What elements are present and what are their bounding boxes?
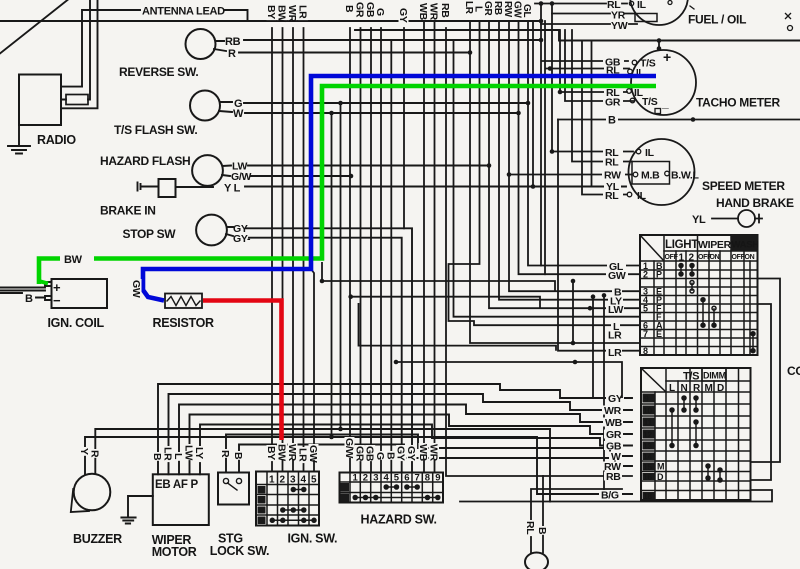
svg-text:LOCK SW.: LOCK SW. (210, 544, 269, 558)
bus vertical GR hazard col2 (360, 28, 362, 473)
svg-text:RB: RB (606, 471, 621, 483)
wire R buzzer (95, 429, 550, 502)
svg-text:W: W (233, 108, 244, 120)
svg-text:B: B (232, 452, 244, 460)
bus vertical F row feed (454, 41, 641, 317)
svg-text:RL: RL (605, 190, 619, 202)
label LW wiper (183, 444, 195, 461)
label GB hazard (364, 445, 376, 462)
label backgrounds (599, 57, 707, 500)
svg-text:GY-: GY- (233, 233, 251, 245)
label WR top2 (428, 2, 440, 21)
bus vertical WB hazard col8 (423, 21, 425, 473)
fuel gauge inner box (635, 14, 657, 22)
t/s table horizontals (641, 381, 751, 491)
bus vertical GR cluster (489, 21, 640, 308)
label WB hazard (417, 443, 429, 462)
label BW ign (276, 443, 288, 461)
svg-text:+: + (663, 49, 671, 65)
label WR hazard (428, 443, 440, 462)
svg-text:3: 3 (373, 473, 378, 484)
speed terminal il bottom (627, 192, 632, 197)
svg-text:GR: GR (354, 2, 366, 18)
radio U1 (19, 75, 61, 126)
svg-text:ON: ON (710, 254, 720, 261)
svg-text:G: G (374, 8, 386, 16)
svg-text:GY: GY (405, 446, 417, 461)
tacho bottom square (655, 109, 661, 114)
label GR cluster (482, 1, 493, 16)
ign sw contacts (270, 488, 316, 523)
wire YL brake to speed meter (245, 186, 626, 188)
svg-text:WB: WB (417, 3, 429, 21)
label BW top (276, 4, 288, 22)
resistor R1 (165, 294, 202, 309)
t/s table verticals (655, 368, 739, 500)
svg-text:HAZARD SW.: HAZARD SW. (361, 513, 437, 527)
label GW ign (307, 444, 319, 463)
svg-text:LR: LR (297, 448, 309, 462)
ign sw row labels rotated (258, 486, 266, 524)
svg-text:ON: ON (745, 254, 755, 261)
svg-text:MOTOR: MOTOR (152, 545, 197, 559)
wire B tacho (558, 119, 800, 121)
svg-text:T/S FLASH SW.: T/S FLASH SW. (114, 123, 197, 137)
svg-text:STOP SW: STOP SW (123, 227, 177, 241)
junction mid a2 (329, 435, 334, 440)
label RB top (439, 2, 451, 18)
wire GW blue highlight (143, 76, 656, 301)
wire W t/s flash (219, 111, 519, 113)
svg-text:RB: RB (439, 3, 451, 18)
bus vertical GY top (403, 28, 405, 228)
svg-text:4: 4 (301, 475, 307, 486)
svg-text:SPEED METER: SPEED METER (702, 179, 785, 193)
wire mid vertical a (331, 113, 333, 437)
ground wiper motor (121, 496, 152, 524)
bus vertical RL speed row5 (582, 41, 627, 195)
svg-text:GW: GW (512, 1, 523, 18)
svg-text:HAND BRAKE: HAND BRAKE (716, 196, 794, 210)
junction top4 (550, 1, 555, 6)
tacho terminal il1 (628, 69, 633, 74)
svg-text:B: B (25, 293, 33, 305)
bus vertical B/G mid feed (604, 295, 632, 494)
svg-text:L: L (473, 6, 484, 12)
speed terminal bwl (665, 171, 670, 176)
bus vertical RL speed (552, 4, 633, 152)
svg-text:8: 8 (643, 346, 648, 356)
svg-text:BW: BW (276, 5, 288, 22)
antenna plug P1 (66, 95, 88, 105)
svg-text:GR: GR (353, 446, 365, 462)
svg-text:10: 10 (643, 406, 652, 416)
ground radio (8, 125, 30, 154)
tacho terminal il2 (627, 89, 632, 94)
svg-text:G/W: G/W (343, 438, 355, 458)
svg-text:5: 5 (643, 304, 648, 314)
junction B row (602, 293, 607, 298)
bus vertical GW ign (311, 76, 314, 472)
hazard off/on cells (341, 483, 350, 492)
label LR ign (297, 447, 309, 463)
svg-text:Y: Y (78, 448, 90, 455)
svg-text:8: 8 (425, 473, 430, 484)
svg-text:14: 14 (643, 452, 652, 462)
wire long bus top y21 (0, 20, 541, 22)
table horizontals (640, 251, 758, 347)
label GW resistor blue (130, 279, 142, 298)
label BY top (265, 4, 277, 20)
svg-text:YL: YL (692, 214, 706, 226)
svg-text:GW: GW (608, 270, 626, 282)
wire radio feed 2 (61, 0, 98, 108)
speed meter M3 (629, 139, 695, 205)
svg-text:LR: LR (608, 330, 622, 342)
fuse brake in F1 (159, 179, 176, 197)
label GY hazard2 (405, 445, 417, 461)
svg-text:LIGHT: LIGHT (665, 239, 698, 251)
svg-text:WR: WR (428, 3, 440, 21)
steering lock switch SW8 (218, 473, 249, 505)
junction mid a (329, 111, 334, 116)
bus vertical G hazard col4 (380, 28, 382, 473)
junction R/LR (468, 50, 473, 55)
svg-text:BW: BW (64, 254, 83, 266)
top edge connector marks (785, 13, 793, 31)
svg-text:11: 11 (644, 418, 653, 428)
junction RL tacho (548, 66, 553, 71)
svg-text:M: M (705, 383, 713, 394)
label RW cluster (502, 1, 513, 18)
svg-text:B.W.L: B.W.L (671, 170, 700, 182)
bus vertical B hazard col5 (390, 41, 392, 473)
svg-text:G: G (374, 452, 386, 460)
svg-text:LW: LW (183, 445, 195, 461)
svg-text:BUZZER: BUZZER (73, 532, 122, 546)
svg-text:OFF: OFF (665, 254, 679, 261)
svg-text:GB: GB (364, 446, 376, 462)
svg-text:1: 1 (269, 475, 275, 486)
wire R reverse (214, 49, 470, 53)
svg-text:WR: WR (286, 5, 298, 23)
svg-text:B: B (536, 527, 548, 535)
label GY top (397, 7, 409, 23)
svg-text:RB: RB (225, 36, 241, 48)
svg-text:RW: RW (502, 1, 513, 18)
svg-text:N: N (681, 383, 688, 394)
bus vertical GW cluster (519, 21, 641, 274)
junction W/GW (516, 111, 521, 116)
bus vertical RW cluster (509, 21, 640, 291)
svg-text:2: 2 (689, 253, 695, 264)
junction RW/509 (507, 172, 512, 177)
svg-text:RB: RB (492, 1, 503, 15)
svg-text:R: R (693, 383, 701, 394)
wire Y buzzer (85, 437, 632, 494)
junction LW row (588, 306, 593, 311)
label GR hazard (353, 445, 365, 462)
table WASH header fill (731, 235, 758, 251)
bus vertical RL tacho (545, 21, 629, 274)
svg-text:LR: LR (162, 447, 174, 461)
svg-text:RADIO: RADIO (37, 133, 76, 147)
wire loop light table to t/s table outer (460, 279, 780, 502)
label L cluster (473, 6, 484, 12)
svg-text:16: 16 (643, 472, 652, 482)
bus vertical BY (271, 28, 273, 472)
svg-text:R: R (219, 450, 231, 458)
junction step gy (573, 360, 578, 365)
t/s header diagonal (641, 368, 666, 392)
hand brake switch SW5 (712, 218, 738, 220)
svg-text:B: B (343, 5, 355, 13)
svg-text:BW: BW (276, 444, 288, 461)
stop switch SW4 (196, 215, 227, 246)
svg-text:REVERSE SW.: REVERSE SW. (119, 65, 198, 79)
svg-text:1: 1 (679, 253, 685, 264)
svg-text:WR: WR (286, 444, 298, 462)
label WB top (417, 2, 429, 21)
wire loop light table to t/s table inner (751, 304, 772, 480)
label B bottom (536, 526, 548, 535)
label B top (343, 4, 355, 13)
svg-text:GR: GR (606, 429, 622, 441)
wire GY stop (227, 227, 412, 473)
svg-text:WB: WB (417, 444, 429, 462)
svg-text:IL: IL (645, 147, 655, 159)
junction mid b2 (338, 427, 343, 432)
fuel/oil gauge M1 (630, 0, 688, 25)
label RL bottom (524, 520, 536, 536)
label WR top (286, 4, 298, 23)
bus vertical GR tacho (565, 30, 634, 101)
svg-text:IL: IL (637, 190, 647, 202)
junction y21 (539, 19, 544, 24)
DIMM header box (702, 368, 726, 381)
svg-text:OFF: OFF (732, 254, 746, 261)
t/s table row labels redrawn on top (599, 393, 624, 502)
t/s table pin number cells (643, 394, 665, 502)
label L wiper (172, 452, 184, 461)
wire link LR-B (572, 281, 574, 343)
speed terminal il top (636, 149, 641, 154)
svg-text:RW: RW (604, 170, 621, 182)
wire RB reverse (216, 40, 542, 41)
svg-text:2: 2 (280, 475, 286, 486)
wire t/s to bottom right (460, 490, 772, 502)
wire wiper LW (190, 415, 633, 475)
label GR top (354, 1, 366, 18)
bus vertical LR light row2 feed (558, 120, 640, 351)
label GW cluster (512, 1, 523, 18)
svg-text:M: M (657, 462, 664, 472)
label G/W hazard (343, 437, 355, 458)
hazard flasher SW3 (192, 155, 223, 186)
svg-text:WIPER: WIPER (698, 239, 732, 251)
light table contacts (679, 264, 755, 353)
label LR wiper (162, 446, 174, 462)
svg-text:GR: GR (605, 97, 621, 109)
svg-text:IL: IL (637, 0, 647, 11)
label BY ign (265, 445, 277, 461)
wire long bus top y30 to y40 step (355, 30, 800, 41)
buzzer BZ1 (74, 474, 111, 511)
svg-text:2: 2 (363, 473, 368, 484)
extra mid verticals (322, 103, 622, 437)
svg-text:TACHO METER: TACHO METER (696, 96, 780, 110)
svg-text:GY: GY (397, 8, 409, 23)
svg-text:12: 12 (643, 430, 652, 440)
label GB top (364, 1, 376, 18)
label LR cluster (463, 1, 474, 15)
wire radio feed 1 (61, 86, 82, 88)
switch table SW6 light/wiper/wash frame (640, 235, 758, 355)
svg-text:RESISTOR: RESISTOR (153, 316, 215, 330)
svg-text:Y L: Y L (224, 183, 241, 195)
svg-text:9: 9 (644, 394, 649, 404)
switch table SW10 hazard frame (340, 473, 444, 503)
wire step LW upper (351, 297, 540, 309)
wire coil leads (0, 288, 45, 298)
junction YL/533 (531, 184, 536, 189)
svg-text:DIMM: DIMM (703, 371, 726, 381)
junction G/GL (526, 101, 531, 106)
wire BW red highlight (203, 301, 282, 441)
wire G/W hazard flash (222, 175, 351, 176)
wire wiper LY (200, 425, 632, 475)
brake-in connector J1 (138, 183, 159, 191)
junction RL/552 (550, 149, 555, 154)
label WR ign (286, 443, 298, 462)
table verticals (654, 235, 750, 355)
label B wiper (151, 452, 163, 461)
wire step LR upper (359, 303, 557, 351)
t/s flasher switch SW2 (190, 91, 220, 121)
svg-text:15: 15 (643, 462, 652, 472)
svg-text:BRAKE IN: BRAKE IN (100, 204, 156, 218)
svg-text:_: _ (661, 96, 669, 110)
svg-text:WASH: WASH (732, 240, 760, 251)
label LR top (297, 4, 309, 20)
label R stg (219, 449, 231, 458)
svg-text:−: − (53, 293, 61, 308)
svg-text:T/S: T/S (683, 371, 699, 383)
svg-text:LY: LY (193, 447, 205, 459)
svg-text:HAZARD FLASH: HAZARD FLASH (100, 154, 190, 168)
junction step gy2 (394, 360, 399, 365)
svg-text:LR: LR (297, 5, 309, 19)
svg-text:7: 7 (415, 473, 420, 484)
wire wiper L (179, 405, 632, 475)
bus vertical LR (303, 28, 305, 472)
svg-text:D: D (657, 472, 664, 482)
wire GY- stop (226, 234, 402, 473)
bus vertical GB tacho (541, 4, 628, 266)
svg-text:18: 18 (643, 491, 652, 501)
svg-text:WB: WB (605, 417, 623, 429)
bus vertical YL speed (591, 41, 593, 187)
junction RL tacho2 (558, 90, 563, 95)
wire RW speed row (509, 174, 632, 176)
label B hazard (384, 451, 396, 460)
svg-text:L: L (669, 383, 675, 394)
svg-text:GL: GL (521, 4, 532, 17)
wire tacho top feed (658, 41, 660, 51)
svg-text:7: 7 (643, 329, 648, 339)
wire step B upper (322, 262, 555, 291)
ignition coil T1 (52, 279, 108, 308)
junction B tacho right (691, 117, 696, 122)
svg-text:B: B (384, 452, 396, 460)
t/s table contacts (670, 396, 722, 482)
bus vertical BW (282, 28, 284, 472)
svg-text:L: L (172, 453, 184, 460)
bus vertical R tacho (560, 30, 627, 92)
label GL cluster (521, 4, 532, 17)
speed meter inner box (632, 162, 670, 185)
junction step b (320, 279, 325, 284)
tacho meter M2 (631, 50, 696, 115)
wire wiper B (158, 384, 632, 474)
label R buzzer (88, 449, 100, 458)
svg-text:WR: WR (428, 444, 440, 462)
svg-text:B/G: B/G (601, 490, 619, 502)
svg-text:6: 6 (404, 473, 409, 484)
label G hazard (374, 451, 386, 460)
svg-text:9: 9 (435, 473, 440, 484)
svg-text:BY: BY (265, 446, 277, 460)
svg-text:B: B (608, 115, 616, 127)
speed terminal mb (633, 172, 638, 177)
junction link2 (591, 294, 596, 299)
svg-text:T/S: T/S (642, 96, 658, 108)
svg-text:EB AF P: EB AF P (155, 479, 198, 491)
connector lamp bottom right (525, 553, 548, 569)
svg-text:FUEL / OIL: FUEL / OIL (688, 13, 746, 27)
label GY hazard1 (395, 445, 407, 461)
svg-text:WR: WR (604, 405, 622, 417)
wire mid vertical b (340, 103, 342, 429)
svg-text:R: R (228, 48, 236, 60)
table header diagonal (640, 235, 664, 261)
junction link1 (571, 279, 576, 284)
bus vertical GB hazard col3 (370, 28, 372, 473)
wire stg R (226, 435, 632, 473)
svg-text:13: 13 (643, 441, 652, 451)
label Y buzzer (78, 447, 90, 456)
bus vertical B / G/W hazard col1 (349, 28, 351, 473)
svg-text:GW: GW (307, 445, 319, 463)
svg-text:YW: YW (611, 20, 628, 32)
bus vertical WR (292, 28, 294, 472)
wire link LW-GY (592, 297, 594, 398)
bus vertical RL speed row2 (572, 30, 632, 162)
svg-text:IGN. COIL: IGN. COIL (48, 316, 105, 330)
bus vertical WR hazard col9 (434, 21, 436, 473)
svg-text:M.B: M.B (641, 170, 660, 182)
bus vertical LR cluster (470, 21, 640, 343)
svg-text:B: B (151, 453, 163, 461)
svg-text:IGN. SW.: IGN. SW. (288, 532, 338, 546)
svg-text:LR: LR (463, 1, 474, 15)
svg-text:E: E (656, 329, 662, 339)
svg-text:ANTENNA LEAD: ANTENNA LEAD (142, 6, 225, 18)
label B stg (232, 451, 244, 460)
junction LR row (571, 341, 576, 346)
svg-text:R: R (88, 450, 100, 458)
bus vertical RB (446, 28, 632, 476)
